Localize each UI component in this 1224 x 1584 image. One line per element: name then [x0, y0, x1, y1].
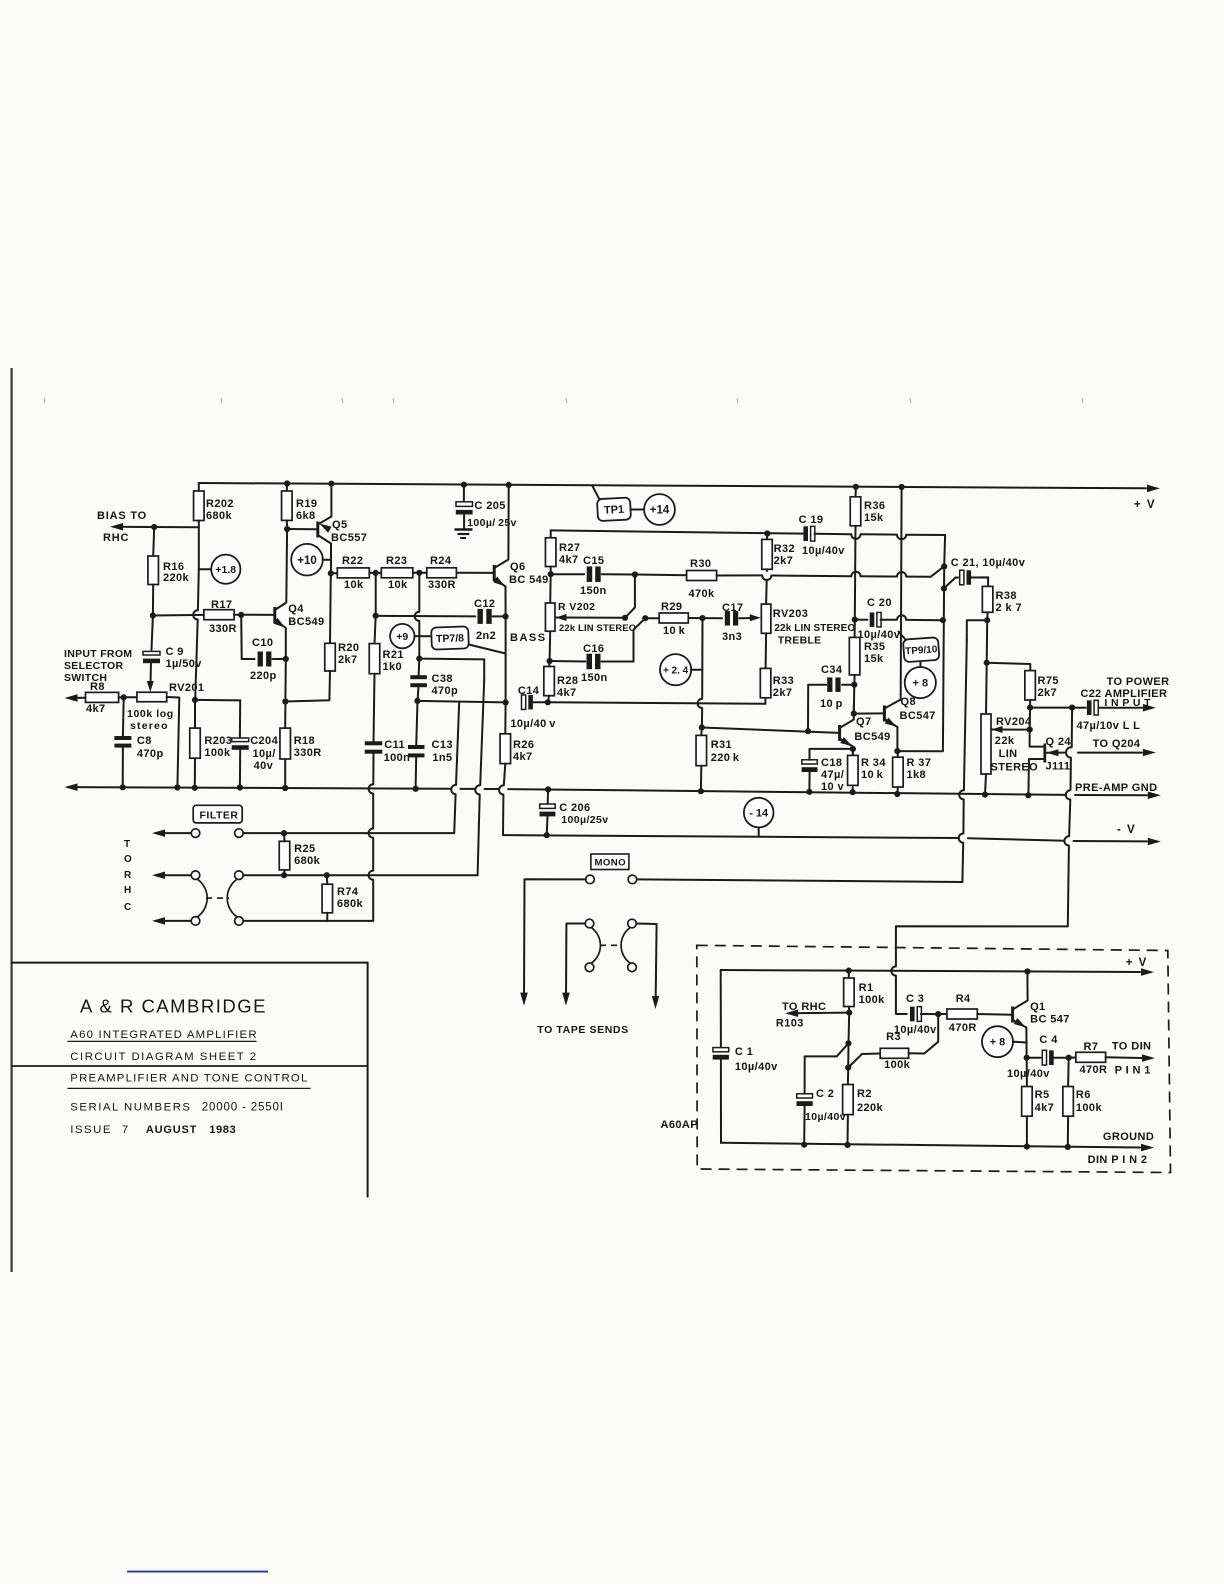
filter row3 left contact: [191, 917, 200, 926]
svg-text:100k: 100k: [1076, 1102, 1103, 1114]
tape switch dashed link: [600, 944, 621, 946]
TO DIN arrowhead: [1142, 1054, 1155, 1062]
svg-text:C13: C13: [432, 739, 453, 751]
svg-text:BIAS TO: BIAS TO: [97, 510, 147, 522]
Q6 emitter lead: [494, 579, 505, 617]
node rail-R34: [850, 789, 856, 795]
wire C18 bottom: [808, 772, 810, 792]
mono left contact: [586, 875, 595, 884]
wire filter row2 drop2: [480, 680, 484, 785]
svg-text:R74: R74: [337, 886, 359, 898]
test voltage circle -14: [744, 798, 774, 828]
wire R37 to rail: [896, 787, 899, 794]
svg-text:100k: 100k: [884, 1059, 911, 1071]
wire TP9/10 to +8: [919, 662, 921, 668]
svg-text:2k7: 2k7: [338, 654, 358, 666]
wire mono riser top corner: [967, 620, 987, 640]
transistor Q1 bar: [1011, 1007, 1014, 1023]
resistor R21: [369, 644, 380, 674]
Q5 emitter lead to rail: [318, 484, 332, 525]
hop mono riser over gnd rail: [959, 790, 964, 799]
resistor R16: [148, 556, 159, 585]
wire R5 top: [1026, 1058, 1028, 1087]
wire R33 bottom riser: [764, 698, 766, 704]
A60AP +V line: [721, 970, 1140, 972]
filter switch arc right: [227, 879, 237, 917]
hop x1072 over -V line: [1064, 836, 1069, 845]
wire C20 right lead a: [881, 619, 898, 621]
svg-text:FILTER: FILTER: [200, 810, 239, 822]
test voltage circle +10: [291, 544, 323, 576]
svg-text:R 37: R 37: [907, 757, 932, 769]
Q7 emitter lead: [840, 739, 853, 756]
hop x1072 over gnd rail: [1066, 790, 1071, 799]
svg-text:C 206: C 206: [559, 802, 590, 814]
hop C11 column over gnd rail: [369, 784, 374, 793]
wire C18 top loop: [810, 749, 853, 760]
svg-text:R1: R1: [859, 982, 874, 994]
svg-text:TO DIN: TO DIN: [1112, 1041, 1151, 1053]
wire C38 column top: [418, 573, 420, 612]
bias wire to RHC: [123, 526, 199, 528]
wire R202 column top: [198, 483, 200, 491]
wire R7 lead: [1069, 1057, 1076, 1059]
wire filter row1 drop2: [454, 794, 455, 833]
wire TO Q204 line b: [1078, 752, 1142, 754]
svg-text:RV201: RV201: [169, 682, 204, 694]
filter switch dashed link: [206, 897, 229, 899]
svg-text:220k: 220k: [857, 1102, 884, 1114]
wire C17 to RV203 wiper: [739, 617, 754, 619]
node R38-monoline: [984, 617, 990, 623]
resistor R38: [982, 586, 993, 612]
wire R35col to Q7: [853, 685, 856, 714]
resistor R31: [696, 735, 707, 765]
wire C22 output line: [1100, 707, 1142, 709]
wire filter row2 drop: [483, 659, 485, 680]
transistor Q24 channel bar: [1043, 744, 1046, 763]
tape right arrowhead: [652, 996, 659, 1009]
svg-text:100k: 100k: [204, 747, 231, 759]
R8 input arrowhead: [65, 694, 78, 702]
svg-text:R103: R103: [776, 1018, 804, 1030]
svg-text:C18: C18: [821, 757, 842, 769]
resistor R35: [849, 637, 860, 675]
wire C2 bottom: [803, 1106, 805, 1145]
resistor R19: [282, 491, 293, 520]
svg-text:40v: 40v: [254, 760, 274, 772]
svg-text:R29: R29: [661, 601, 682, 613]
svg-text:10µ/: 10µ/: [253, 748, 276, 760]
output arrowhead to power amp: [1143, 704, 1156, 712]
resistor R4: [947, 1009, 977, 1019]
svg-text:I N P U T: I N P U T: [1104, 697, 1151, 709]
resistor R34: [848, 755, 859, 785]
svg-text:10µ/40v: 10µ/40v: [735, 1061, 778, 1073]
wire C16 right lead: [602, 661, 634, 663]
svg-text:R21: R21: [383, 649, 404, 661]
svg-text:R20: R20: [338, 642, 359, 654]
wire R8 to RV201: [119, 696, 137, 698]
wire C21 diagonal: [944, 578, 956, 589]
node y531-R32: [764, 530, 770, 536]
resistor R33: [760, 668, 771, 697]
svg-text:+10: +10: [297, 555, 317, 567]
resistor R8: [86, 692, 119, 702]
node R36-C20-R35: [852, 617, 858, 623]
wire TP7/8 diagonal to Q6 emitter column: [469, 645, 506, 654]
wire R6 bottom: [1067, 1116, 1069, 1147]
node C22-x1072: [1069, 705, 1075, 711]
svg-text:- 14: - 14: [749, 808, 769, 820]
mono left arrowhead: [520, 993, 528, 1006]
Q8 emitter lead: [884, 719, 897, 751]
svg-text:4k7: 4k7: [557, 687, 577, 699]
svg-text:220k: 220k: [163, 572, 190, 584]
node C34-Q7base: [805, 728, 811, 734]
wire C19 line b: [815, 533, 852, 535]
svg-text:R18: R18: [294, 735, 315, 747]
wire R19 column top: [286, 484, 288, 492]
test voltage circle +1.8: [211, 555, 240, 584]
svg-text:330R: 330R: [428, 579, 456, 591]
node bias-R16: [151, 524, 157, 530]
filter return riser c: [372, 794, 374, 829]
svg-text:1µ/50v: 1µ/50v: [166, 658, 203, 670]
wire Q7 base line: [702, 728, 839, 733]
svg-text:150n: 150n: [581, 672, 608, 684]
node Q8emitter-R37: [894, 748, 900, 754]
resistor R22: [337, 568, 369, 578]
wire C8 to gnd rail: [122, 747, 124, 787]
node rail-C204: [237, 784, 243, 790]
svg-text:C16: C16: [583, 643, 604, 655]
svg-text:BASS: BASS: [510, 632, 547, 644]
svg-text:R28: R28: [557, 675, 578, 687]
wire R35 top: [854, 620, 856, 638]
svg-text:Q 24: Q 24: [1046, 736, 1072, 748]
wire R75 bottom: [1029, 700, 1031, 708]
wire C206 bottom: [546, 816, 549, 835]
resistor R5: [1022, 1087, 1033, 1117]
hop C19 line over R36 column: [851, 534, 860, 539]
svg-text:C12: C12: [474, 598, 495, 610]
wire R25 top: [283, 833, 286, 841]
svg-text:C14: C14: [518, 685, 540, 697]
wire RV202 bottom: [549, 631, 552, 661]
wire wiper diagonal to C15 node: [625, 575, 635, 618]
svg-text:C204: C204: [250, 735, 278, 747]
Q24 source lead: [1028, 759, 1044, 795]
node R1-TORHC: [846, 1010, 852, 1016]
svg-text:R: R: [124, 870, 132, 881]
wire RV201 right to gnd: [167, 697, 180, 788]
node C206--V: [544, 832, 550, 838]
svg-text:P I N 1: P I N 1: [1115, 1065, 1151, 1077]
node Q1emitter-C4-R5: [1024, 1055, 1030, 1061]
Q5 emitter arrowhead (PNP): [320, 524, 332, 533]
wire C2 column: [804, 1056, 806, 1093]
svg-text:2k7: 2k7: [1038, 687, 1058, 699]
resistor R7: [1076, 1052, 1106, 1062]
svg-text:470R: 470R: [949, 1022, 977, 1034]
hop filter riser over row2: [369, 871, 374, 880]
wire RV204 bottom to rail: [985, 774, 986, 795]
capacitor C204 (electrolytic): [232, 738, 249, 742]
TO Q204 arrowhead: [1143, 749, 1156, 756]
Q7 collector lead: [840, 705, 854, 728]
capacitor C206 (electrolytic): [540, 804, 556, 808]
wire Q8 collector column: [900, 487, 903, 695]
svg-text:AUGUST: AUGUST: [146, 1124, 197, 1136]
node A60AP +V-Q1coll: [1024, 968, 1030, 974]
svg-text:330R: 330R: [209, 623, 237, 635]
svg-text:+ 2. 4: + 2. 4: [663, 665, 689, 676]
node rail-R31: [698, 788, 704, 794]
test point box TP7/8: [431, 626, 469, 649]
svg-text:C 20: C 20: [867, 597, 892, 609]
svg-text:10µ/40 v: 10µ/40 v: [510, 718, 556, 730]
test point box TP9/10: [903, 637, 939, 662]
potentiometer RV204: [981, 714, 991, 774]
svg-text:22k: 22k: [995, 735, 1015, 747]
hop row1 drop over gnd rail: [451, 785, 456, 794]
tape left arrowhead: [562, 993, 570, 1006]
wire C13 column: [416, 701, 417, 747]
node R18-R20jog: [282, 698, 288, 704]
svg-text:100µ/25v: 100µ/25v: [561, 814, 608, 826]
Q24 gate arrowhead: [1046, 749, 1058, 756]
wire R6 top: [1067, 1058, 1070, 1087]
wire R74 top: [326, 875, 329, 884]
wire R28 bottom: [548, 696, 549, 703]
svg-text:BC549: BC549: [288, 616, 324, 628]
svg-text:BC549: BC549: [854, 731, 890, 743]
svg-text:J111: J111: [1046, 761, 1071, 773]
test voltage circle +14: [644, 494, 675, 525]
hop R30 line over Q8 column: [897, 572, 906, 577]
wire mono riser b: [962, 799, 964, 833]
page left border line: [11, 368, 13, 1272]
svg-text:TO POWER: TO POWER: [1107, 676, 1170, 688]
resistor R32: [762, 539, 773, 569]
svg-text:R203: R203: [204, 735, 232, 747]
resistor R26: [500, 734, 511, 764]
node R23-R24-C38col: [416, 570, 422, 576]
node rail-Q5emitter: [328, 481, 334, 487]
svg-text:+ 8: + 8: [990, 1037, 1006, 1049]
node RV202-C16-R28: [547, 658, 553, 664]
wire stub to +1.8 circle: [199, 568, 212, 570]
svg-text:R2: R2: [857, 1088, 872, 1100]
mono left wire: [524, 879, 586, 1000]
wire x1072 column b: [1070, 758, 1072, 790]
hop row2 drop over gnd rail: [475, 785, 480, 794]
filter row3 wire: [243, 920, 373, 922]
svg-text:TO RHC: TO RHC: [782, 1001, 826, 1013]
wire x1072 column a: [1071, 708, 1073, 748]
wire C19 line d: [906, 535, 945, 567]
wire Q5 base lead: [287, 528, 318, 530]
wire C204 line: [195, 699, 240, 702]
svg-text:10 v: 10 v: [821, 781, 844, 793]
filter row2 right contact: [235, 871, 244, 880]
hop C38 column over C12 line: [415, 612, 420, 621]
wire R2 bottom: [847, 1115, 849, 1145]
svg-text:15k: 15k: [864, 653, 884, 665]
resistor R20: [325, 643, 336, 671]
svg-text:1983: 1983: [209, 1124, 236, 1136]
wire C11 below plates: [372, 752, 374, 784]
wire C15-R30 line a: [635, 574, 687, 577]
svg-text:10µ/40v: 10µ/40v: [805, 1111, 846, 1123]
tape switch top-left contact: [585, 919, 594, 928]
filter return riser a: [372, 880, 374, 921]
wire x1072 column d: [896, 846, 1069, 967]
wire R3 lead: [862, 1053, 880, 1056]
wire RV204 wiper line: [992, 729, 1030, 731]
svg-text:4k7: 4k7: [1035, 1102, 1055, 1114]
wire C8 column top: [122, 697, 125, 736]
filter label box: [193, 805, 242, 823]
node R203-C204line: [192, 697, 198, 703]
wire R4 lead: [938, 1013, 947, 1015]
tape switch arc right: [621, 928, 630, 963]
wire C22 line a: [1030, 707, 1072, 709]
wire A60AP input drop: [896, 976, 907, 1015]
capacitor C2 (electrolytic): [797, 1094, 813, 1098]
title block right rule: [367, 963, 369, 1197]
node bottomline-R2: [844, 1142, 850, 1148]
wire R75 to wiper node: [1029, 708, 1031, 730]
svg-text:C 2: C 2: [816, 1088, 834, 1100]
resistor R75: [1025, 671, 1036, 700]
wire R16 column: [153, 527, 154, 556]
transistor Q7 bar: [838, 725, 841, 741]
svg-text:A60AP: A60AP: [661, 1119, 698, 1131]
svg-text:330R: 330R: [294, 747, 322, 759]
node A60AP +V-R1: [846, 968, 852, 974]
wire R74 bottom: [326, 913, 328, 921]
wire R26 to -V: [504, 764, 506, 786]
capacitor C15: [587, 566, 593, 582]
wire C15-R30 line c: [771, 575, 851, 578]
hop R202 column over R17 line: [193, 610, 198, 619]
wire R26 below rail to -V corner: [503, 795, 539, 836]
hop C19 line over Q8 column: [897, 535, 906, 540]
svg-text:6k8: 6k8: [296, 510, 316, 522]
wire R38 bottom: [986, 612, 988, 620]
hop filter riser over row1: [369, 829, 374, 838]
wire RV202 wiper line: [556, 617, 626, 619]
blue underline mark: [127, 1571, 268, 1573]
svg-text:C10: C10: [252, 637, 273, 649]
capacitor C1 (electrolytic): [713, 1048, 729, 1052]
hop TO Q204 line over x1072 (on vertical): [1066, 747, 1071, 757]
wire R29 lead: [645, 617, 659, 619]
bias arrowhead: [110, 523, 123, 531]
capacitor C16: [587, 654, 593, 670]
svg-text:470R: 470R: [1080, 1064, 1108, 1076]
wire R34 top: [852, 749, 854, 756]
svg-text:7: 7: [122, 1124, 128, 1136]
transistor Q8 bar: [883, 706, 886, 722]
wire C22 left lead: [1072, 707, 1086, 709]
wire C20 right lead b: [906, 619, 943, 621]
filter row2 wire: [243, 874, 477, 876]
node rail-C206: [545, 786, 551, 792]
potentiometer RV202: [545, 603, 555, 631]
capacitor C34: [827, 677, 832, 692]
svg-text:R32: R32: [774, 543, 795, 555]
wire RV203 bottom to R33: [765, 633, 768, 668]
svg-text:- V: - V: [1117, 824, 1136, 836]
svg-text:BC 547: BC 547: [1030, 1014, 1070, 1026]
node rail-R203: [192, 785, 198, 791]
svg-text:10 k: 10 k: [861, 769, 884, 781]
svg-text:10k: 10k: [344, 579, 364, 591]
-V line a: [539, 835, 959, 838]
svg-text:1k8: 1k8: [907, 769, 927, 781]
svg-text:100k: 100k: [859, 994, 886, 1006]
wire mono riser c: [637, 843, 964, 882]
filter row3 arrowhead: [152, 917, 165, 925]
resistor R23: [381, 568, 413, 578]
svg-text:220 k: 220 k: [711, 752, 740, 764]
wire C16 left lead: [550, 660, 586, 663]
svg-text:4k7: 4k7: [86, 703, 106, 715]
svg-text:RV204: RV204: [996, 716, 1032, 728]
svg-text:22k LIN STEREO: 22k LIN STEREO: [774, 623, 855, 634]
wire C15-R30 line d: [861, 575, 898, 577]
node rail-R36: [853, 484, 859, 490]
node rail-C13: [413, 786, 419, 792]
svg-text:150n: 150n: [580, 585, 607, 597]
wire diagonal to C21 node: [931, 566, 944, 576]
svg-text:PREAMPLIFIER AND TONE CONTROL: PREAMPLIFIER AND TONE CONTROL: [70, 1073, 308, 1085]
node wiper-Q24drain: [1027, 727, 1033, 733]
transistor Q5 bar: [316, 522, 319, 538]
svg-text:4k7: 4k7: [513, 751, 533, 763]
wire C13 to rail: [415, 756, 418, 789]
wire C21 right lead: [970, 577, 988, 586]
wire C14 line left: [418, 701, 506, 703]
wire C12 right lead: [493, 615, 506, 617]
svg-text:SELECTOR: SELECTOR: [64, 660, 123, 672]
resistor R202: [194, 491, 205, 521]
svg-text:A & R CAMBRIDGE: A & R CAMBRIDGE: [80, 996, 267, 1017]
svg-text:+9: +9: [396, 631, 408, 643]
wire C16 to R29 diagonal: [634, 618, 646, 661]
gnd rail right arrowhead: [1148, 792, 1161, 800]
wire R2 top: [847, 1068, 849, 1085]
wire C14 right lead: [532, 701, 548, 703]
svg-text:R8: R8: [90, 681, 105, 693]
svg-text:680k: 680k: [206, 510, 233, 522]
svg-text:BC 549: BC 549: [509, 574, 549, 586]
resistor R203: [190, 728, 201, 758]
wire C10 left lead: [242, 658, 255, 660]
svg-text:R19: R19: [296, 498, 317, 510]
svg-text:C 4: C 4: [1039, 1034, 1058, 1046]
svg-text:4k7: 4k7: [559, 554, 579, 566]
node row2-R74: [324, 872, 330, 878]
wire R36 top: [855, 487, 857, 497]
hop mono riser over -V: [959, 834, 964, 843]
wire mono riser: [964, 640, 967, 790]
wire R1 bottom: [848, 1007, 850, 1013]
svg-text:100k log: 100k log: [127, 708, 174, 720]
